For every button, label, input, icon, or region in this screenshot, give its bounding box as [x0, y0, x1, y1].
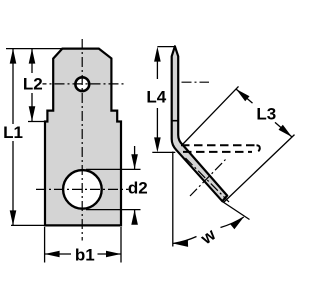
svg-text:L1: L1: [3, 123, 23, 142]
svg-text:d2: d2: [128, 178, 148, 197]
svg-text:L3: L3: [256, 105, 276, 124]
svg-text:b1: b1: [75, 245, 95, 264]
svg-text:L2: L2: [23, 74, 43, 93]
svg-text:L4: L4: [146, 88, 166, 107]
